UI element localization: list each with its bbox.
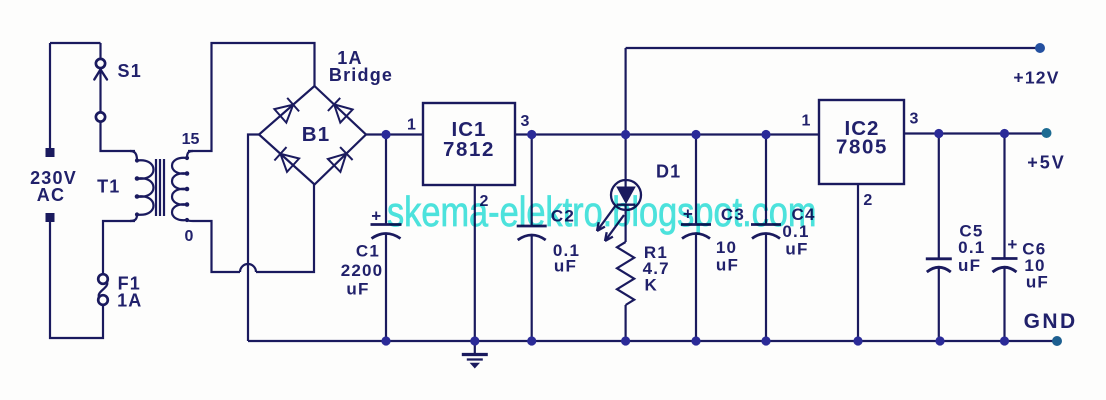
svg-text:uF: uF xyxy=(346,280,369,299)
svg-text:+: + xyxy=(1007,235,1018,254)
svg-text:B1: B1 xyxy=(302,123,331,146)
svg-text:AC: AC xyxy=(37,185,65,205)
svg-text:+12V: +12V xyxy=(1013,68,1059,88)
svg-text:+5V: +5V xyxy=(1027,153,1066,173)
svg-text:uF: uF xyxy=(554,257,577,276)
svg-text:1: 1 xyxy=(802,113,811,130)
svg-text:+: + xyxy=(371,207,382,226)
svg-text:7805: 7805 xyxy=(836,136,888,159)
svg-text:uF: uF xyxy=(1026,273,1049,292)
svg-text:0: 0 xyxy=(185,228,194,245)
svg-text:uF: uF xyxy=(785,240,808,259)
svg-text:uF: uF xyxy=(958,256,981,275)
svg-text:15: 15 xyxy=(182,131,200,148)
svg-text:0.1: 0.1 xyxy=(958,238,985,257)
svg-text:7812: 7812 xyxy=(443,138,495,161)
svg-text:1A: 1A xyxy=(117,291,142,311)
svg-text:2: 2 xyxy=(863,192,872,209)
svg-text:1: 1 xyxy=(407,117,416,134)
svg-text:3: 3 xyxy=(521,113,530,130)
svg-text:uF: uF xyxy=(716,256,739,275)
svg-text:10: 10 xyxy=(716,238,737,257)
svg-text:Bridge: Bridge xyxy=(329,65,393,85)
svg-text:C1: C1 xyxy=(356,242,380,261)
svg-text:K: K xyxy=(644,276,657,295)
svg-text:S1: S1 xyxy=(117,61,141,81)
svg-text:T1: T1 xyxy=(97,177,120,197)
svg-text:skema-elektro.blogspot.com: skema-elektro.blogspot.com xyxy=(387,189,817,236)
svg-text:GND: GND xyxy=(1024,310,1078,333)
svg-text:2200: 2200 xyxy=(341,261,384,280)
svg-text:D1: D1 xyxy=(656,162,681,182)
svg-text:3: 3 xyxy=(910,111,919,128)
